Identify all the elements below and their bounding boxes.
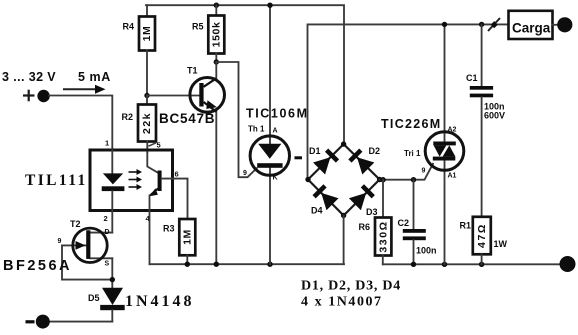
svg-text:150k: 150k	[211, 22, 223, 48]
svg-text:Carga: Carga	[512, 21, 551, 36]
svg-text:3 ... 32 V: 3 ... 32 V	[2, 70, 56, 84]
svg-text:D2: D2	[369, 146, 381, 156]
label +	[23, 90, 35, 102]
wire T2 gate loop to source junction	[62, 245, 112, 279]
transistor T2 BF256A	[62, 228, 112, 288]
svg-text:R4: R4	[123, 22, 135, 32]
resistor R3	[179, 219, 195, 255]
svg-text:9: 9	[58, 238, 62, 245]
svg-text:330Ω: 330Ω	[377, 220, 389, 252]
svg-text:1M: 1M	[182, 229, 194, 245]
svg-text:22k: 22k	[141, 112, 153, 134]
label minus	[26, 320, 35, 323]
svg-text:TIC106M: TIC106M	[246, 107, 309, 121]
node output terminal bottom right	[560, 256, 576, 272]
svg-text:T2: T2	[70, 219, 81, 229]
node bridge left corner	[305, 177, 310, 182]
svg-text:D1, D2, D3, D4: D1, D2, D3, D4	[301, 279, 401, 294]
resistor R1	[473, 217, 491, 255]
svg-text:R2: R2	[122, 112, 134, 122]
svg-text:5 mA: 5 mA	[78, 70, 111, 84]
LED inside TIL111	[111, 150, 113, 173]
node bridge top corner	[341, 141, 346, 146]
wire + input to optocoupler pin 1	[49, 96, 112, 151]
wire top rail (bridge + DC rail)	[146, 5, 344, 144]
wire rail2 (AC1 from bridge left corner to load)	[308, 24, 509, 179]
phototransistor inside TIL111	[147, 152, 161, 196]
svg-text:4 x 1N4007: 4 x 1N4007	[301, 295, 383, 310]
svg-text:A2: A2	[448, 127, 457, 134]
svg-text:C2: C2	[398, 218, 410, 228]
svg-text:TIC226M: TIC226M	[381, 117, 442, 131]
node bridge bottom corner	[341, 213, 346, 218]
svg-text:D4: D4	[311, 206, 323, 216]
wire pin 6 (base) to R3	[162, 179, 188, 219]
svg-text:6: 6	[175, 170, 179, 179]
node + input terminal	[37, 90, 49, 102]
resistor R5	[214, 2, 219, 7]
node Tri1 A1/rail	[442, 262, 447, 267]
node source/gate/D5 junction	[110, 277, 115, 282]
pin 5 tick	[149, 143, 157, 146]
diode bridge frame	[308, 144, 380, 215]
svg-text:R5: R5	[192, 22, 204, 32]
wire bottom-left rail (DC minus net)	[150, 263, 345, 265]
diode D1	[313, 148, 340, 175]
svg-text:D1: D1	[309, 146, 321, 156]
svg-text:T1: T1	[187, 66, 198, 76]
diode D3	[349, 184, 376, 211]
svg-text:600V: 600V	[484, 111, 505, 121]
wire LED cathode pin 2 down to T2 drain	[111, 191, 113, 233]
wire Carga to terminal	[553, 24, 559, 26]
transistor T1	[190, 62, 225, 264]
load box Carga	[509, 11, 553, 39]
svg-text:Th 1: Th 1	[248, 125, 265, 134]
node base junction (R4/R2/T1 base)	[144, 93, 149, 98]
resistor R2	[146, 96, 148, 105]
svg-text:D5: D5	[88, 293, 100, 303]
triac Tri1 TIC226M	[425, 24, 464, 264]
resistor R6	[382, 180, 384, 218]
svg-text:1M: 1M	[141, 26, 153, 42]
wire bridge bottom to bottom-left rail	[343, 216, 345, 265]
svg-text:100n: 100n	[416, 246, 437, 256]
svg-text:A: A	[273, 128, 278, 135]
node Th1 anode on top rail	[267, 2, 272, 7]
wire bottom-right rail (load return)	[383, 263, 560, 265]
node output terminal top right	[557, 17, 572, 32]
node Th1 cathode/rail	[267, 262, 272, 267]
wire D5 to minus terminal	[50, 321, 113, 323]
current arrow	[63, 88, 97, 90]
svg-text:K: K	[273, 175, 278, 182]
capacitor C2	[413, 180, 415, 229]
node collector junction (R5/T1 collector/Th1 gate wire)	[214, 59, 219, 64]
node R1/rail	[479, 262, 484, 267]
svg-text:R1: R1	[460, 221, 472, 231]
svg-text:D: D	[105, 229, 110, 236]
diode D5 1N4148	[102, 288, 123, 305]
node minus input terminal	[36, 315, 50, 329]
wire pin 4 (emitter) down to bottom rail	[149, 196, 151, 265]
node bridge right corner	[377, 177, 382, 182]
node Tri1 A2 on rail2	[442, 22, 447, 27]
svg-text:A1: A1	[448, 173, 457, 180]
diode D2	[348, 148, 375, 175]
capacitor C1	[479, 22, 484, 27]
node R3/rail	[185, 262, 190, 267]
svg-text:2: 2	[104, 214, 108, 223]
svg-text:R3: R3	[163, 224, 175, 234]
svg-text:5: 5	[157, 141, 161, 150]
node C2 top junction	[411, 177, 416, 182]
svg-text:1: 1	[105, 139, 109, 148]
svg-text:S: S	[105, 261, 110, 268]
svg-text:C1: C1	[466, 73, 478, 83]
node T1 emitter/rail	[214, 262, 219, 267]
svg-text:BC547B: BC547B	[159, 111, 215, 126]
resistor R4	[146, 5, 148, 16]
svg-text:47Ω: 47Ω	[476, 223, 488, 248]
node C2/rail	[411, 262, 416, 267]
svg-text:R6: R6	[359, 222, 371, 232]
svg-text:TIL111: TIL111	[25, 172, 88, 189]
svg-text:9: 9	[422, 168, 426, 175]
wire bridge right corner to triac gate	[380, 164, 433, 180]
wire R2 to pin 5	[146, 142, 148, 153]
wire T1 base	[147, 95, 200, 97]
diode D4	[312, 184, 339, 211]
optocoupler U1 TIL111 box	[90, 150, 173, 211]
node R6 top junction	[380, 177, 385, 182]
svg-text:1W: 1W	[494, 239, 508, 249]
svg-text:BF256A: BF256A	[3, 258, 72, 274]
wire collector junction to Th1 gate	[216, 62, 256, 177]
connector arrow to load	[488, 18, 500, 31]
minus polarity dash near bridge	[295, 156, 303, 159]
light arrows	[129, 172, 138, 187]
svg-text:9: 9	[243, 170, 247, 177]
svg-text:1N4148: 1N4148	[125, 293, 195, 310]
svg-text:Tri 1: Tri 1	[404, 149, 421, 158]
svg-text:D3: D3	[366, 207, 378, 217]
thyristor Th1 TIC106M	[250, 5, 289, 264]
